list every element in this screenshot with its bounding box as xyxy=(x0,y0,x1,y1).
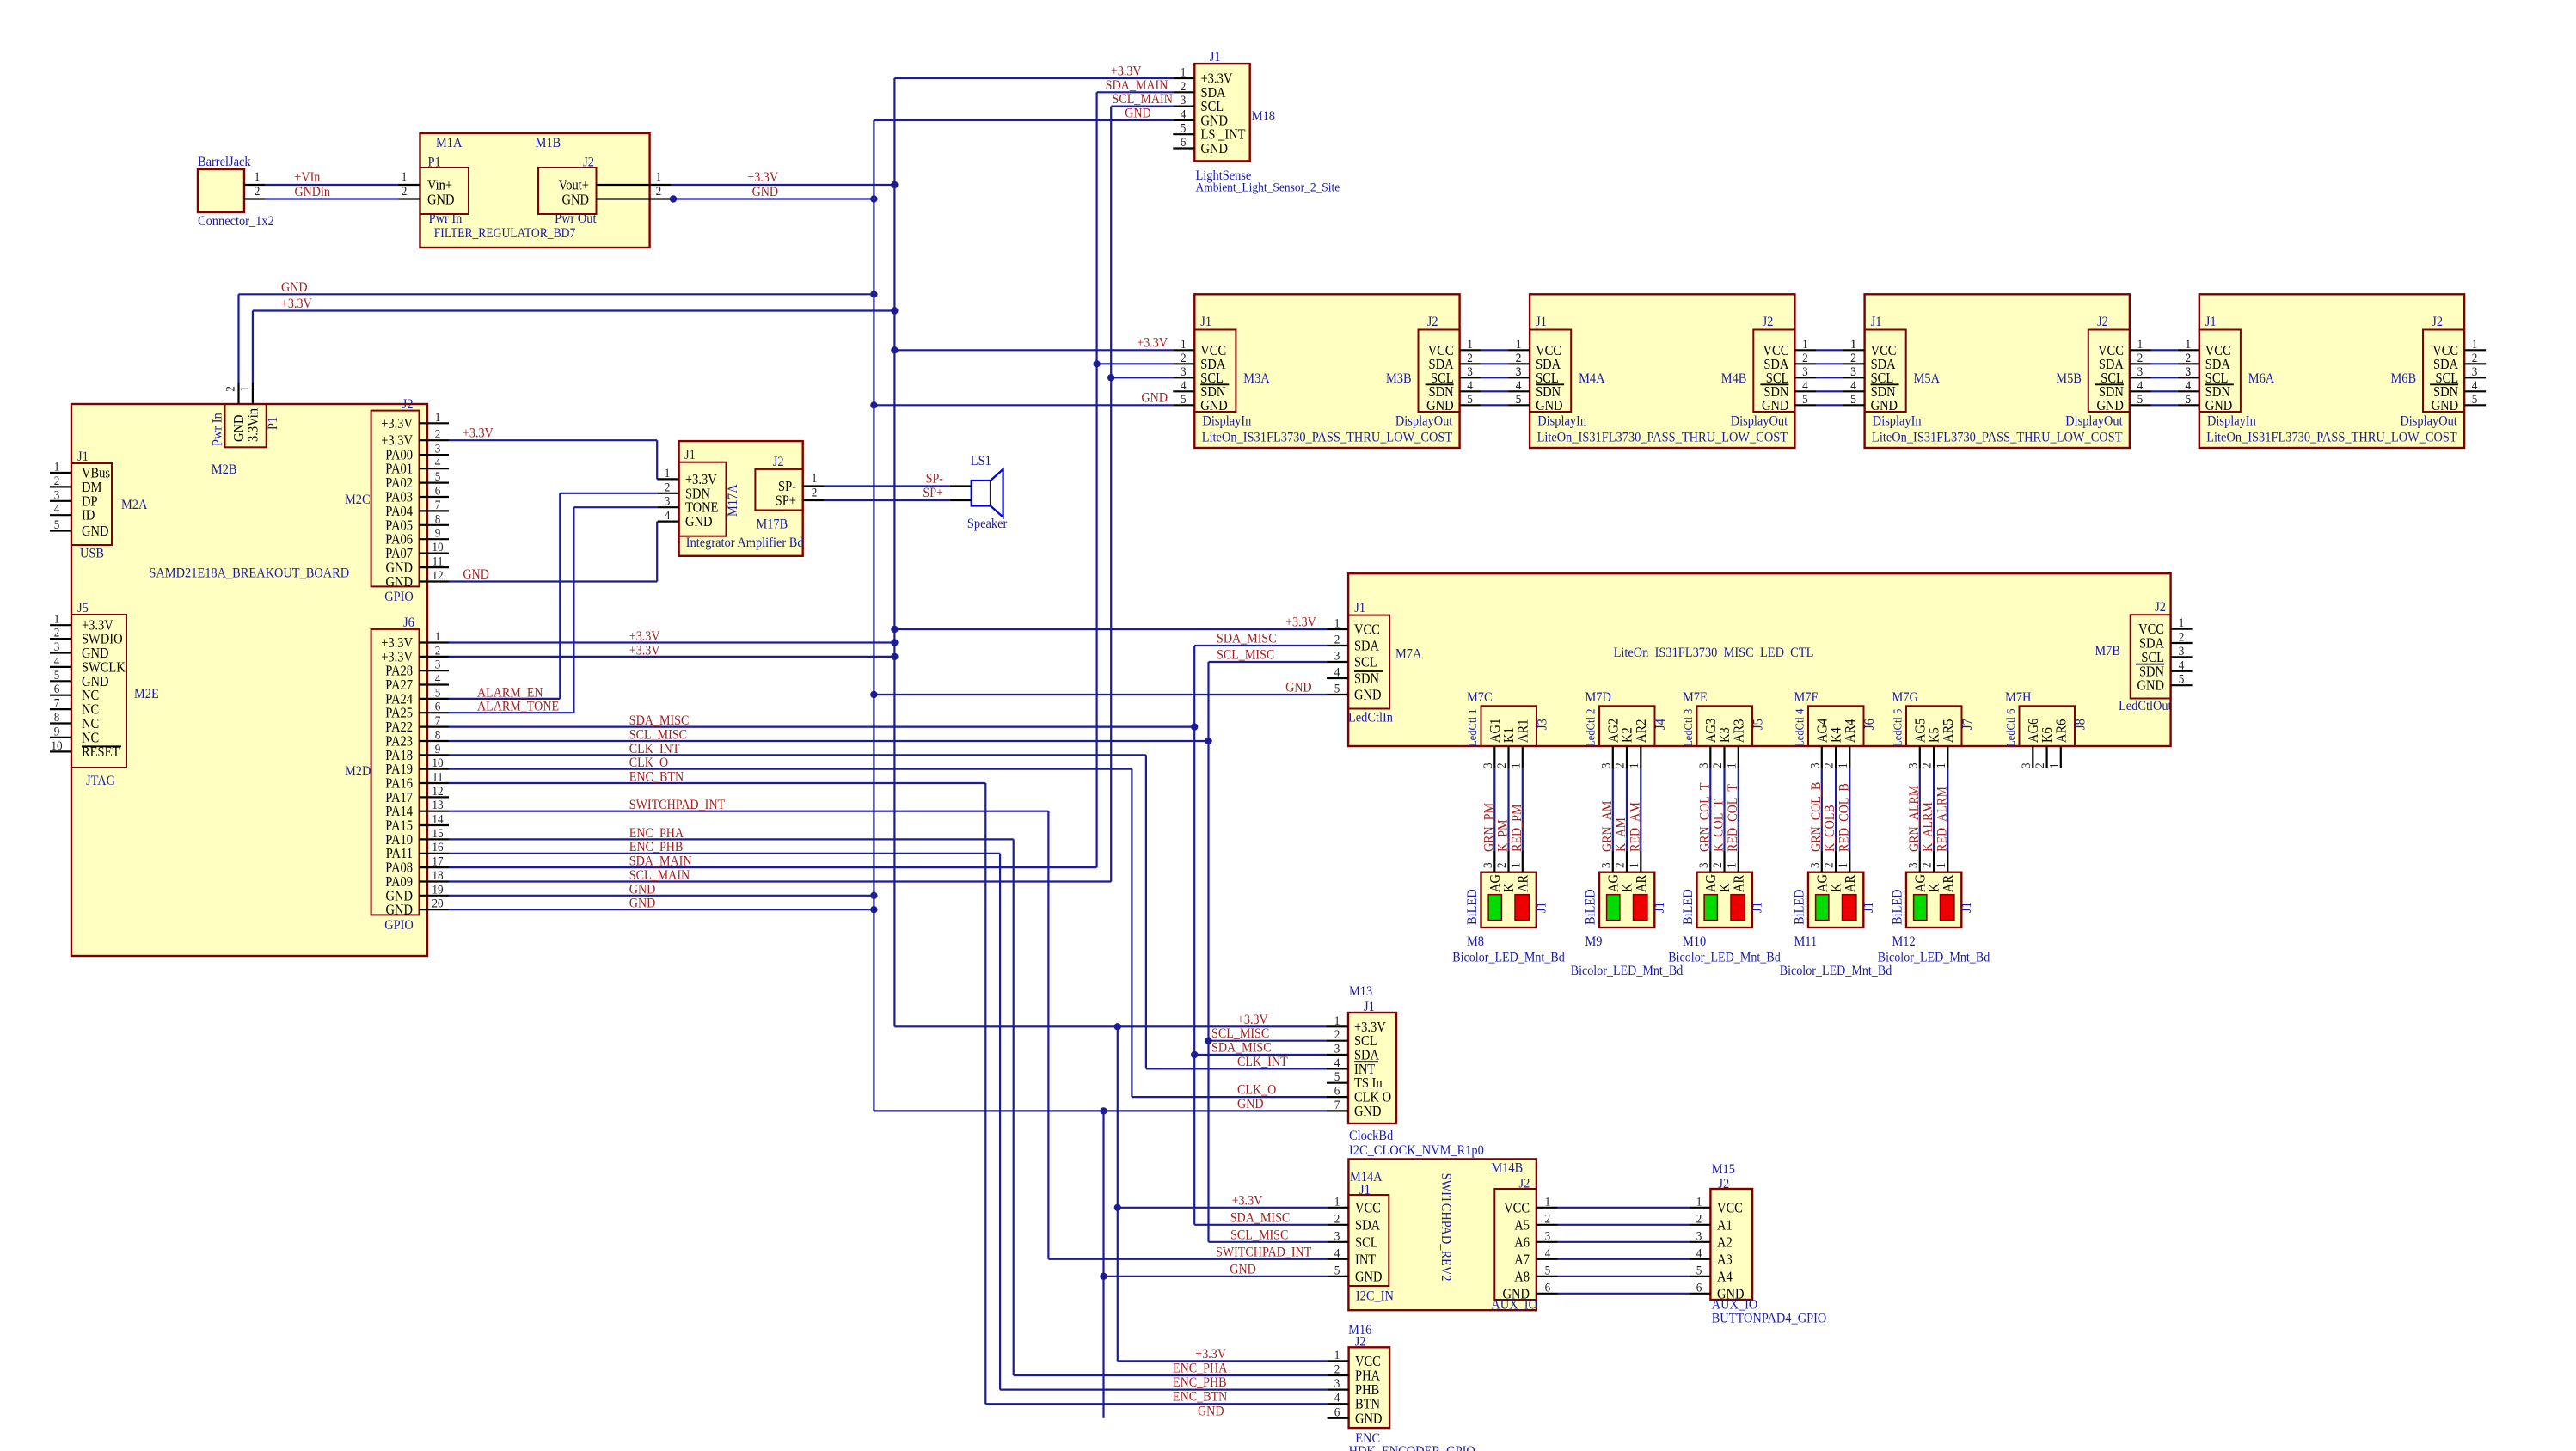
module M14 SWITCHPAD_REV2 xyxy=(1348,1159,1536,1310)
svg-text:2: 2 xyxy=(2137,351,2144,365)
overline on SDN of M5A xyxy=(1871,383,1899,385)
pin 6 of M2E (NC) xyxy=(50,695,71,696)
wire SCL_MAIN to M3A pin3 xyxy=(1111,377,1173,378)
pin 1 of M16 (VCC) xyxy=(1328,1360,1349,1362)
pin 2 of M11 xyxy=(1835,851,1837,872)
svg-text:2: 2 xyxy=(255,184,261,199)
svg-text:PA18: PA18 xyxy=(385,748,413,763)
connector M7F J6 LedCtl 4 xyxy=(1808,706,1864,746)
svg-text:VCC: VCC xyxy=(1717,1200,1743,1215)
svg-text:5: 5 xyxy=(1467,392,1473,407)
svg-text:4: 4 xyxy=(1516,378,1522,393)
svg-text:GND: GND xyxy=(82,646,108,661)
svg-text:RED_PM: RED_PM xyxy=(1510,804,1524,852)
pin 6 of M2D (PA25) xyxy=(420,712,450,713)
svg-text:1: 1 xyxy=(1509,762,1524,768)
svg-text:6: 6 xyxy=(54,682,60,696)
svg-text:3: 3 xyxy=(1181,364,1187,379)
module M9 Bicolor_LED_Mnt_Bd xyxy=(1599,872,1654,928)
svg-text:J2: J2 xyxy=(2097,314,2108,329)
svg-text:2: 2 xyxy=(1822,762,1837,768)
svg-text:GND: GND xyxy=(1237,1097,1264,1111)
svg-text:3: 3 xyxy=(1906,862,1921,868)
svg-text:BiLED: BiLED xyxy=(1792,889,1807,925)
svg-text:M5B: M5B xyxy=(2056,370,2082,386)
pin 1 of M12 xyxy=(1947,851,1948,872)
svg-text:2: 2 xyxy=(1181,79,1187,94)
svg-text:AR6: AR6 xyxy=(2053,719,2069,743)
svg-text:Bicolor_LED_Mnt_Bd: Bicolor_LED_Mnt_Bd xyxy=(1668,951,1781,965)
green LED xyxy=(1488,895,1501,921)
svg-text:FILTER_REGULATOR_BD7: FILTER_REGULATOR_BD7 xyxy=(434,226,576,241)
junction on +3.3V trunk at M1B xyxy=(891,181,898,188)
overline on SDN of M4B xyxy=(1760,383,1788,385)
overline on INT of M13 xyxy=(1354,1061,1378,1062)
svg-text:GND: GND xyxy=(1717,1286,1744,1301)
svg-text:+3.3V: +3.3V xyxy=(747,170,778,185)
pin 4 of M18 (GND) xyxy=(1173,119,1194,121)
svg-text:3: 3 xyxy=(1599,762,1614,768)
svg-text:AR3: AR3 xyxy=(1731,719,1746,743)
pin 2 of M14A (SDA) xyxy=(1327,1224,1348,1226)
svg-text:5: 5 xyxy=(1334,682,1340,696)
svg-text:RED_COL_B: RED_COL_B xyxy=(1837,783,1852,852)
svg-text:2: 2 xyxy=(1334,1212,1340,1227)
pin 1 of M7D (AR2) xyxy=(1634,719,1649,743)
wire M14B pin3 to M15 pin3 xyxy=(1558,1241,1690,1243)
svg-text:2: 2 xyxy=(2186,351,2192,365)
pin 3 of M4A (SCL) xyxy=(1508,377,1530,378)
pin 3 of M16 (PHB) xyxy=(1328,1388,1349,1390)
wire pin2 M4B to next DisplayIn xyxy=(1816,363,1843,364)
svg-text:2: 2 xyxy=(1181,351,1187,365)
svg-text:+3.3V: +3.3V xyxy=(381,650,414,665)
svg-text:NC: NC xyxy=(82,716,99,732)
svg-text:SCL_MISC: SCL_MISC xyxy=(1230,1228,1288,1243)
connector M2A J1 USB xyxy=(71,463,112,545)
svg-text:3: 3 xyxy=(1808,862,1823,868)
svg-text:2: 2 xyxy=(1334,633,1340,647)
svg-text:USB: USB xyxy=(80,546,104,561)
pin 2 of M1A xyxy=(399,198,420,199)
svg-text:5: 5 xyxy=(1334,1069,1340,1084)
wire SDA_MAIN trunk vertical xyxy=(1095,92,1097,867)
svg-text:AR: AR xyxy=(1843,874,1858,892)
svg-text:1: 1 xyxy=(1467,337,1473,352)
svg-text:M2C: M2C xyxy=(345,492,371,507)
svg-text:GND: GND xyxy=(2205,398,2232,413)
svg-text:K_COL_T: K_COL_T xyxy=(1712,799,1727,852)
pin 3 of M12 xyxy=(1919,851,1921,872)
pin 3 of M2D (PA28) xyxy=(420,670,450,671)
connector M15 J2 AUX_IO BUTTONPAD4_GPIO xyxy=(1710,1189,1752,1300)
svg-text:2: 2 xyxy=(224,386,238,392)
svg-text:PA27: PA27 xyxy=(385,677,413,693)
pin 19 of M2D (GND) xyxy=(420,895,450,897)
svg-text:PA09: PA09 xyxy=(385,874,413,890)
svg-text:+3.3V: +3.3V xyxy=(685,472,718,487)
pin 1 of M2B P1 xyxy=(252,383,254,404)
svg-text:20: 20 xyxy=(432,897,443,911)
svg-text:SCL_MISC: SCL_MISC xyxy=(629,728,687,743)
pin 1 of M2E (+3.3V) xyxy=(50,624,71,626)
pin 2 of M7H (K6) xyxy=(2039,727,2055,743)
wire K_PM from M7C to M8 xyxy=(1507,768,1509,851)
svg-text:VCC: VCC xyxy=(1354,622,1380,638)
pin 1 of M8 xyxy=(1522,851,1524,872)
svg-text:12: 12 xyxy=(432,568,443,583)
wire GND branch vertical to M16 xyxy=(1102,1111,1104,1417)
pin 2 of M7E (K3) xyxy=(1717,727,1733,743)
connector M18 J1 LightSense xyxy=(1194,64,1249,161)
svg-text:1: 1 xyxy=(1545,1195,1551,1209)
svg-text:1: 1 xyxy=(1802,337,1808,352)
module M17 Integrator Amplifier Bd xyxy=(679,441,803,556)
svg-text:1: 1 xyxy=(54,612,60,627)
svg-text:VCC: VCC xyxy=(1355,1354,1381,1369)
svg-text:GRN_ALRM: GRN_ALRM xyxy=(1907,786,1922,852)
svg-text:Vin+: Vin+ xyxy=(427,178,452,193)
pin 1 of M7A (VCC) xyxy=(1327,628,1348,630)
svg-text:SWITCHPAD_REV2: SWITCHPAD_REV2 xyxy=(1438,1173,1454,1282)
svg-text:3: 3 xyxy=(1334,649,1340,664)
svg-text:2: 2 xyxy=(1850,351,1856,365)
svg-text:2: 2 xyxy=(435,644,441,658)
wire GND to M3A pin5 xyxy=(874,404,1173,406)
overline on SDN of M6A xyxy=(2205,383,2234,385)
svg-text:2: 2 xyxy=(435,427,441,442)
pin 15 of M2D (PA10) xyxy=(420,838,450,840)
module M3 LiteOn_IS31FL3730_PASS_THRU_LOW_COST xyxy=(1194,294,1459,448)
svg-text:K_ALRM: K_ALRM xyxy=(1921,802,1935,852)
svg-text:M5A: M5A xyxy=(1914,370,1940,386)
svg-text:A3: A3 xyxy=(1717,1252,1733,1267)
svg-text:PA23: PA23 xyxy=(385,734,413,750)
svg-text:ENC_PHB: ENC_PHB xyxy=(1173,1375,1227,1390)
wire pin4 M5B to next DisplayIn xyxy=(2151,390,2178,392)
svg-text:18: 18 xyxy=(432,868,443,883)
svg-text:3: 3 xyxy=(1481,862,1495,868)
svg-text:+3.3V: +3.3V xyxy=(1195,1347,1226,1362)
speaker LS1 xyxy=(972,481,991,506)
pin 2 of M9 xyxy=(1626,851,1628,872)
svg-text:J2: J2 xyxy=(1519,1176,1530,1191)
svg-text:GND: GND xyxy=(427,193,454,208)
svg-text:DisplayOut: DisplayOut xyxy=(1395,413,1453,429)
svg-text:5: 5 xyxy=(2137,392,2144,407)
svg-text:1: 1 xyxy=(237,386,252,392)
wire pin2 M5B to next DisplayIn xyxy=(2151,363,2178,364)
svg-text:LiteOn_IS31FL3730_PASS_THRU_LO: LiteOn_IS31FL3730_PASS_THRU_LOW_COST xyxy=(1537,430,1788,445)
svg-text:LedCtl 6: LedCtl 6 xyxy=(2003,708,2017,747)
svg-text:GND: GND xyxy=(281,280,308,295)
pin 6 of M15 (GND) xyxy=(1689,1293,1710,1295)
svg-text:LiteOn_IS31FL3730_MISC_LED_CTL: LiteOn_IS31FL3730_MISC_LED_CTL xyxy=(1614,645,1814,660)
svg-text:P1: P1 xyxy=(265,417,280,430)
svg-text:3: 3 xyxy=(1850,364,1856,379)
svg-text:1: 1 xyxy=(1181,65,1187,80)
pin 2 of M2B P1 xyxy=(237,383,239,404)
svg-text:1: 1 xyxy=(2047,762,2062,768)
wire CLK_INT from M2D pin9 to M13 pin4 xyxy=(449,754,1146,756)
svg-text:LedCtl 1: LedCtl 1 xyxy=(1465,709,1479,747)
svg-text:J1: J1 xyxy=(1536,314,1547,329)
svg-text:7: 7 xyxy=(435,713,441,728)
svg-text:+3.3V: +3.3V xyxy=(1137,336,1168,351)
svg-text:15: 15 xyxy=(432,826,443,841)
svg-text:PA04: PA04 xyxy=(385,504,413,519)
svg-text:GRN_COL_T: GRN_COL_T xyxy=(1698,782,1713,852)
svg-text:2: 2 xyxy=(812,486,818,500)
wire SCL_MISC trunk vertical xyxy=(1207,662,1209,1242)
wire +3.3V to M18 pin1 xyxy=(894,77,1173,79)
svg-text:LedCtl 2: LedCtl 2 xyxy=(1584,709,1598,747)
svg-text:J4: J4 xyxy=(1653,719,1668,730)
svg-text:2: 2 xyxy=(1545,1212,1551,1227)
pin 4 of M14A (INT) xyxy=(1327,1258,1348,1260)
svg-text:ID: ID xyxy=(82,508,95,523)
svg-text:6: 6 xyxy=(1181,135,1187,150)
svg-text:GND: GND xyxy=(685,514,712,530)
svg-text:6: 6 xyxy=(435,484,441,499)
svg-text:J1: J1 xyxy=(2205,314,2217,329)
overline on SDN of M6B xyxy=(2430,383,2458,385)
pin 4 of M2A (ID) xyxy=(50,514,71,516)
connector M7E J5 LedCtl 3 xyxy=(1697,706,1753,746)
wire +3.3V to M16 pin1 xyxy=(1118,1360,1328,1362)
svg-text:3: 3 xyxy=(54,488,60,503)
pin 2 of M2A (DM) xyxy=(50,486,71,487)
pin 1 of M7C (AR1) xyxy=(1515,719,1530,743)
svg-text:GND: GND xyxy=(1355,1411,1382,1426)
svg-text:4: 4 xyxy=(1181,107,1187,122)
svg-text:GND: GND xyxy=(1354,688,1381,703)
svg-text:6: 6 xyxy=(1334,1084,1340,1099)
wire RED_ALRM from M7G to M12 xyxy=(1947,768,1948,851)
svg-text:TONE: TONE xyxy=(685,500,718,516)
pin 4 of M16 (BTN) xyxy=(1328,1403,1349,1405)
wire GNDin xyxy=(266,198,399,199)
svg-text:2: 2 xyxy=(2033,762,2047,768)
svg-text:PA03: PA03 xyxy=(385,490,413,505)
pin 4 of M2D (PA27) xyxy=(420,683,450,685)
wire GND to M14A pin5 xyxy=(1104,1276,1328,1277)
svg-text:+3.3V: +3.3V xyxy=(381,635,414,651)
svg-text:3: 3 xyxy=(1467,364,1473,379)
svg-text:GND: GND xyxy=(2432,398,2458,413)
svg-text:PHA: PHA xyxy=(1355,1368,1381,1384)
pin 1 of M14B (VCC) xyxy=(1536,1207,1558,1209)
svg-text:INT: INT xyxy=(1355,1252,1377,1267)
svg-text:A8: A8 xyxy=(1514,1269,1530,1284)
pin 4 of M6A (SDN) xyxy=(2178,390,2199,392)
pin 1 of M7G (AR5) xyxy=(1941,719,1956,743)
svg-text:J1: J1 xyxy=(684,447,696,462)
svg-text:GND: GND xyxy=(1355,1269,1382,1284)
svg-text:SDA_MISC: SDA_MISC xyxy=(629,713,690,728)
svg-text:J6: J6 xyxy=(1861,719,1877,730)
svg-text:1: 1 xyxy=(1334,1348,1340,1362)
svg-text:Connector_1x2: Connector_1x2 xyxy=(198,213,274,229)
svg-text:SDA_MAIN: SDA_MAIN xyxy=(1106,78,1168,93)
overline on SDN of M5B xyxy=(2095,383,2124,385)
svg-text:SP+: SP+ xyxy=(776,493,796,509)
pin 1 of M13 (+3.3V) xyxy=(1327,1025,1348,1027)
svg-text:LedCtl 4: LedCtl 4 xyxy=(1793,708,1806,747)
pin 5 of M3B (GND) xyxy=(1460,404,1481,406)
svg-text:PA22: PA22 xyxy=(385,719,413,735)
svg-text:M3B: M3B xyxy=(1386,370,1412,386)
svg-text:J7: J7 xyxy=(1960,719,1975,730)
svg-text:3: 3 xyxy=(1599,862,1614,868)
pin 8 of M2E (NC) xyxy=(50,722,71,724)
svg-text:3: 3 xyxy=(1696,762,1711,768)
svg-text:4: 4 xyxy=(1181,378,1187,393)
svg-text:DisplayIn: DisplayIn xyxy=(1203,413,1252,429)
svg-text:5: 5 xyxy=(1181,392,1187,407)
svg-text:2: 2 xyxy=(1710,862,1725,868)
pin 2 of M17A (SDN) xyxy=(658,493,679,494)
svg-text:5: 5 xyxy=(54,517,60,532)
svg-text:DisplayIn: DisplayIn xyxy=(1873,413,1922,429)
svg-text:9: 9 xyxy=(54,725,60,739)
pin 1 of M2D (+3.3V) xyxy=(420,641,450,643)
svg-text:J2: J2 xyxy=(773,454,784,469)
svg-text:LS1: LS1 xyxy=(971,453,991,468)
pin 7 of M2C (PA04) xyxy=(420,510,450,511)
connector M7H J8 LedCtl 6 xyxy=(2020,706,2076,746)
wire K_AM from M7D to M9 xyxy=(1626,768,1628,851)
svg-text:M7G: M7G xyxy=(1892,689,1918,705)
wire SDA_MISC to M14A pin2 xyxy=(1194,1224,1327,1226)
pin 3 of M14A (SCL) xyxy=(1327,1241,1348,1243)
svg-text:DisplayIn: DisplayIn xyxy=(1537,413,1586,429)
pin 5 of M6B (GND) xyxy=(2464,404,2486,406)
svg-text:PA19: PA19 xyxy=(385,762,413,777)
pin 18 of M2D (PA09) xyxy=(420,880,450,882)
svg-text:VCC: VCC xyxy=(1355,1200,1381,1215)
pin 3 of M6A (SCL) xyxy=(2178,377,2199,378)
pin 2 of M7G (K5) xyxy=(1927,727,1942,743)
svg-text:AR: AR xyxy=(1515,874,1530,892)
svg-text:SDN: SDN xyxy=(1354,671,1379,687)
svg-text:NC: NC xyxy=(82,688,99,703)
svg-text:J1: J1 xyxy=(1871,314,1882,329)
svg-text:SDA: SDA xyxy=(2139,636,2165,652)
svg-text:SWITCHPAD_INT: SWITCHPAD_INT xyxy=(629,798,725,812)
connector M14B J2 AUX_IO xyxy=(1494,1189,1536,1300)
svg-text:5: 5 xyxy=(1696,1264,1702,1278)
connector M16 J2 ENC HDK_ENCODER_GPIO xyxy=(1349,1347,1390,1428)
pin 1 of M6A (VCC) xyxy=(2178,349,2199,351)
svg-text:BarrelJack: BarrelJack xyxy=(198,154,251,169)
svg-text:5: 5 xyxy=(2186,392,2192,407)
svg-text:A4: A4 xyxy=(1717,1269,1733,1284)
pin 2 of M7F (K4) xyxy=(1829,727,1844,743)
wire +3.3V to M13 pin1 xyxy=(894,1025,1327,1027)
wire pin4 M4B to next DisplayIn xyxy=(1816,390,1843,392)
svg-text:8: 8 xyxy=(54,710,60,725)
svg-text:BiLED: BiLED xyxy=(1890,889,1905,925)
svg-text:1: 1 xyxy=(1334,616,1340,631)
pin 4 of M3A (SDN) xyxy=(1173,390,1194,392)
pin 1 of M14A (VCC) xyxy=(1327,1207,1348,1209)
svg-text:GPIO: GPIO xyxy=(384,590,414,605)
svg-text:2: 2 xyxy=(1920,762,1935,768)
overline on SDN of M7A xyxy=(1354,670,1383,672)
wire GND from M2C pin12 to M17 pin4 xyxy=(449,580,657,582)
svg-text:J2: J2 xyxy=(1763,314,1774,329)
svg-text:PA11: PA11 xyxy=(386,846,413,861)
pin 4 of M3B (SDN) xyxy=(1460,390,1481,392)
pin 3 of M7D (AG2) xyxy=(1605,719,1621,743)
pin 2 of M5A (SDA) xyxy=(1843,363,1865,364)
wire pin5 M5B to next DisplayIn xyxy=(2151,404,2178,406)
svg-text:6: 6 xyxy=(1696,1281,1702,1295)
svg-text:LedCtl 3: LedCtl 3 xyxy=(1681,708,1695,747)
svg-text:+VIn: +VIn xyxy=(294,170,320,185)
svg-text:2: 2 xyxy=(1494,862,1509,868)
svg-text:3.3Vin: 3.3Vin xyxy=(246,408,261,442)
svg-text:LiteOn_IS31FL3730_PASS_THRU_LO: LiteOn_IS31FL3730_PASS_THRU_LOW_COST xyxy=(1202,430,1453,445)
svg-text:M4B: M4B xyxy=(1721,370,1747,386)
svg-text:M6B: M6B xyxy=(2390,370,2416,386)
svg-text:1: 1 xyxy=(1850,337,1856,352)
pin 7 of M13 (GND) xyxy=(1327,1110,1348,1111)
svg-text:M8: M8 xyxy=(1467,934,1484,949)
svg-text:SCL_MAIN: SCL_MAIN xyxy=(1113,92,1173,107)
svg-text:VCC: VCC xyxy=(2138,621,2164,637)
svg-text:3: 3 xyxy=(1334,1229,1340,1244)
svg-text:GND: GND xyxy=(463,567,489,582)
svg-text:2: 2 xyxy=(402,184,408,199)
svg-text:SCL_MAIN: SCL_MAIN xyxy=(629,868,690,883)
pin 7 of M2D (PA22) xyxy=(420,725,450,727)
svg-text:DM: DM xyxy=(82,480,102,495)
svg-text:2: 2 xyxy=(2472,351,2478,365)
svg-text:AR: AR xyxy=(1731,874,1746,892)
svg-text:3: 3 xyxy=(1516,364,1522,379)
junction on GND trunk xyxy=(870,291,877,297)
pin 3 of M7B (SCL) xyxy=(2171,656,2193,658)
pin 3 of M18 (SCL) xyxy=(1173,105,1194,107)
pin 2 of M18 (SDA) xyxy=(1173,91,1194,93)
green LED xyxy=(1914,895,1927,921)
pin 2 of M2D (+3.3V) xyxy=(420,656,450,658)
pin 3 of M7H (AG6) xyxy=(2026,719,2041,743)
svg-text:SDA: SDA xyxy=(1354,1048,1380,1063)
wire GRN_COL_B from M7F to M11 xyxy=(1821,768,1823,851)
junction at M1B GND pin xyxy=(670,195,677,202)
wire +3.3V from M1B to +3.3V trunk xyxy=(672,184,895,186)
svg-text:LedCtlIn: LedCtlIn xyxy=(1348,710,1393,725)
svg-text:3: 3 xyxy=(435,658,441,672)
svg-text:1: 1 xyxy=(2186,337,2192,352)
svg-text:+3.3V: +3.3V xyxy=(1111,64,1142,79)
connector M6A J1 DisplayIn xyxy=(2199,330,2241,413)
svg-text:1: 1 xyxy=(1836,762,1850,768)
svg-text:5: 5 xyxy=(1334,1264,1340,1278)
svg-text:J1: J1 xyxy=(1354,600,1365,615)
pin 3 of M7C (AG1) xyxy=(1487,719,1503,743)
wire GRN_AM from M7D to M9 xyxy=(1612,768,1614,851)
module M11 Bicolor_LED_Mnt_Bd xyxy=(1808,872,1863,928)
svg-text:J1: J1 xyxy=(1534,902,1549,913)
pin 4 of M4A (SDN) xyxy=(1508,390,1530,392)
svg-text:GND: GND xyxy=(629,883,656,897)
pin 12 of M2C (GND) xyxy=(420,580,450,582)
pin 1 of M5A (VCC) xyxy=(1843,349,1865,351)
